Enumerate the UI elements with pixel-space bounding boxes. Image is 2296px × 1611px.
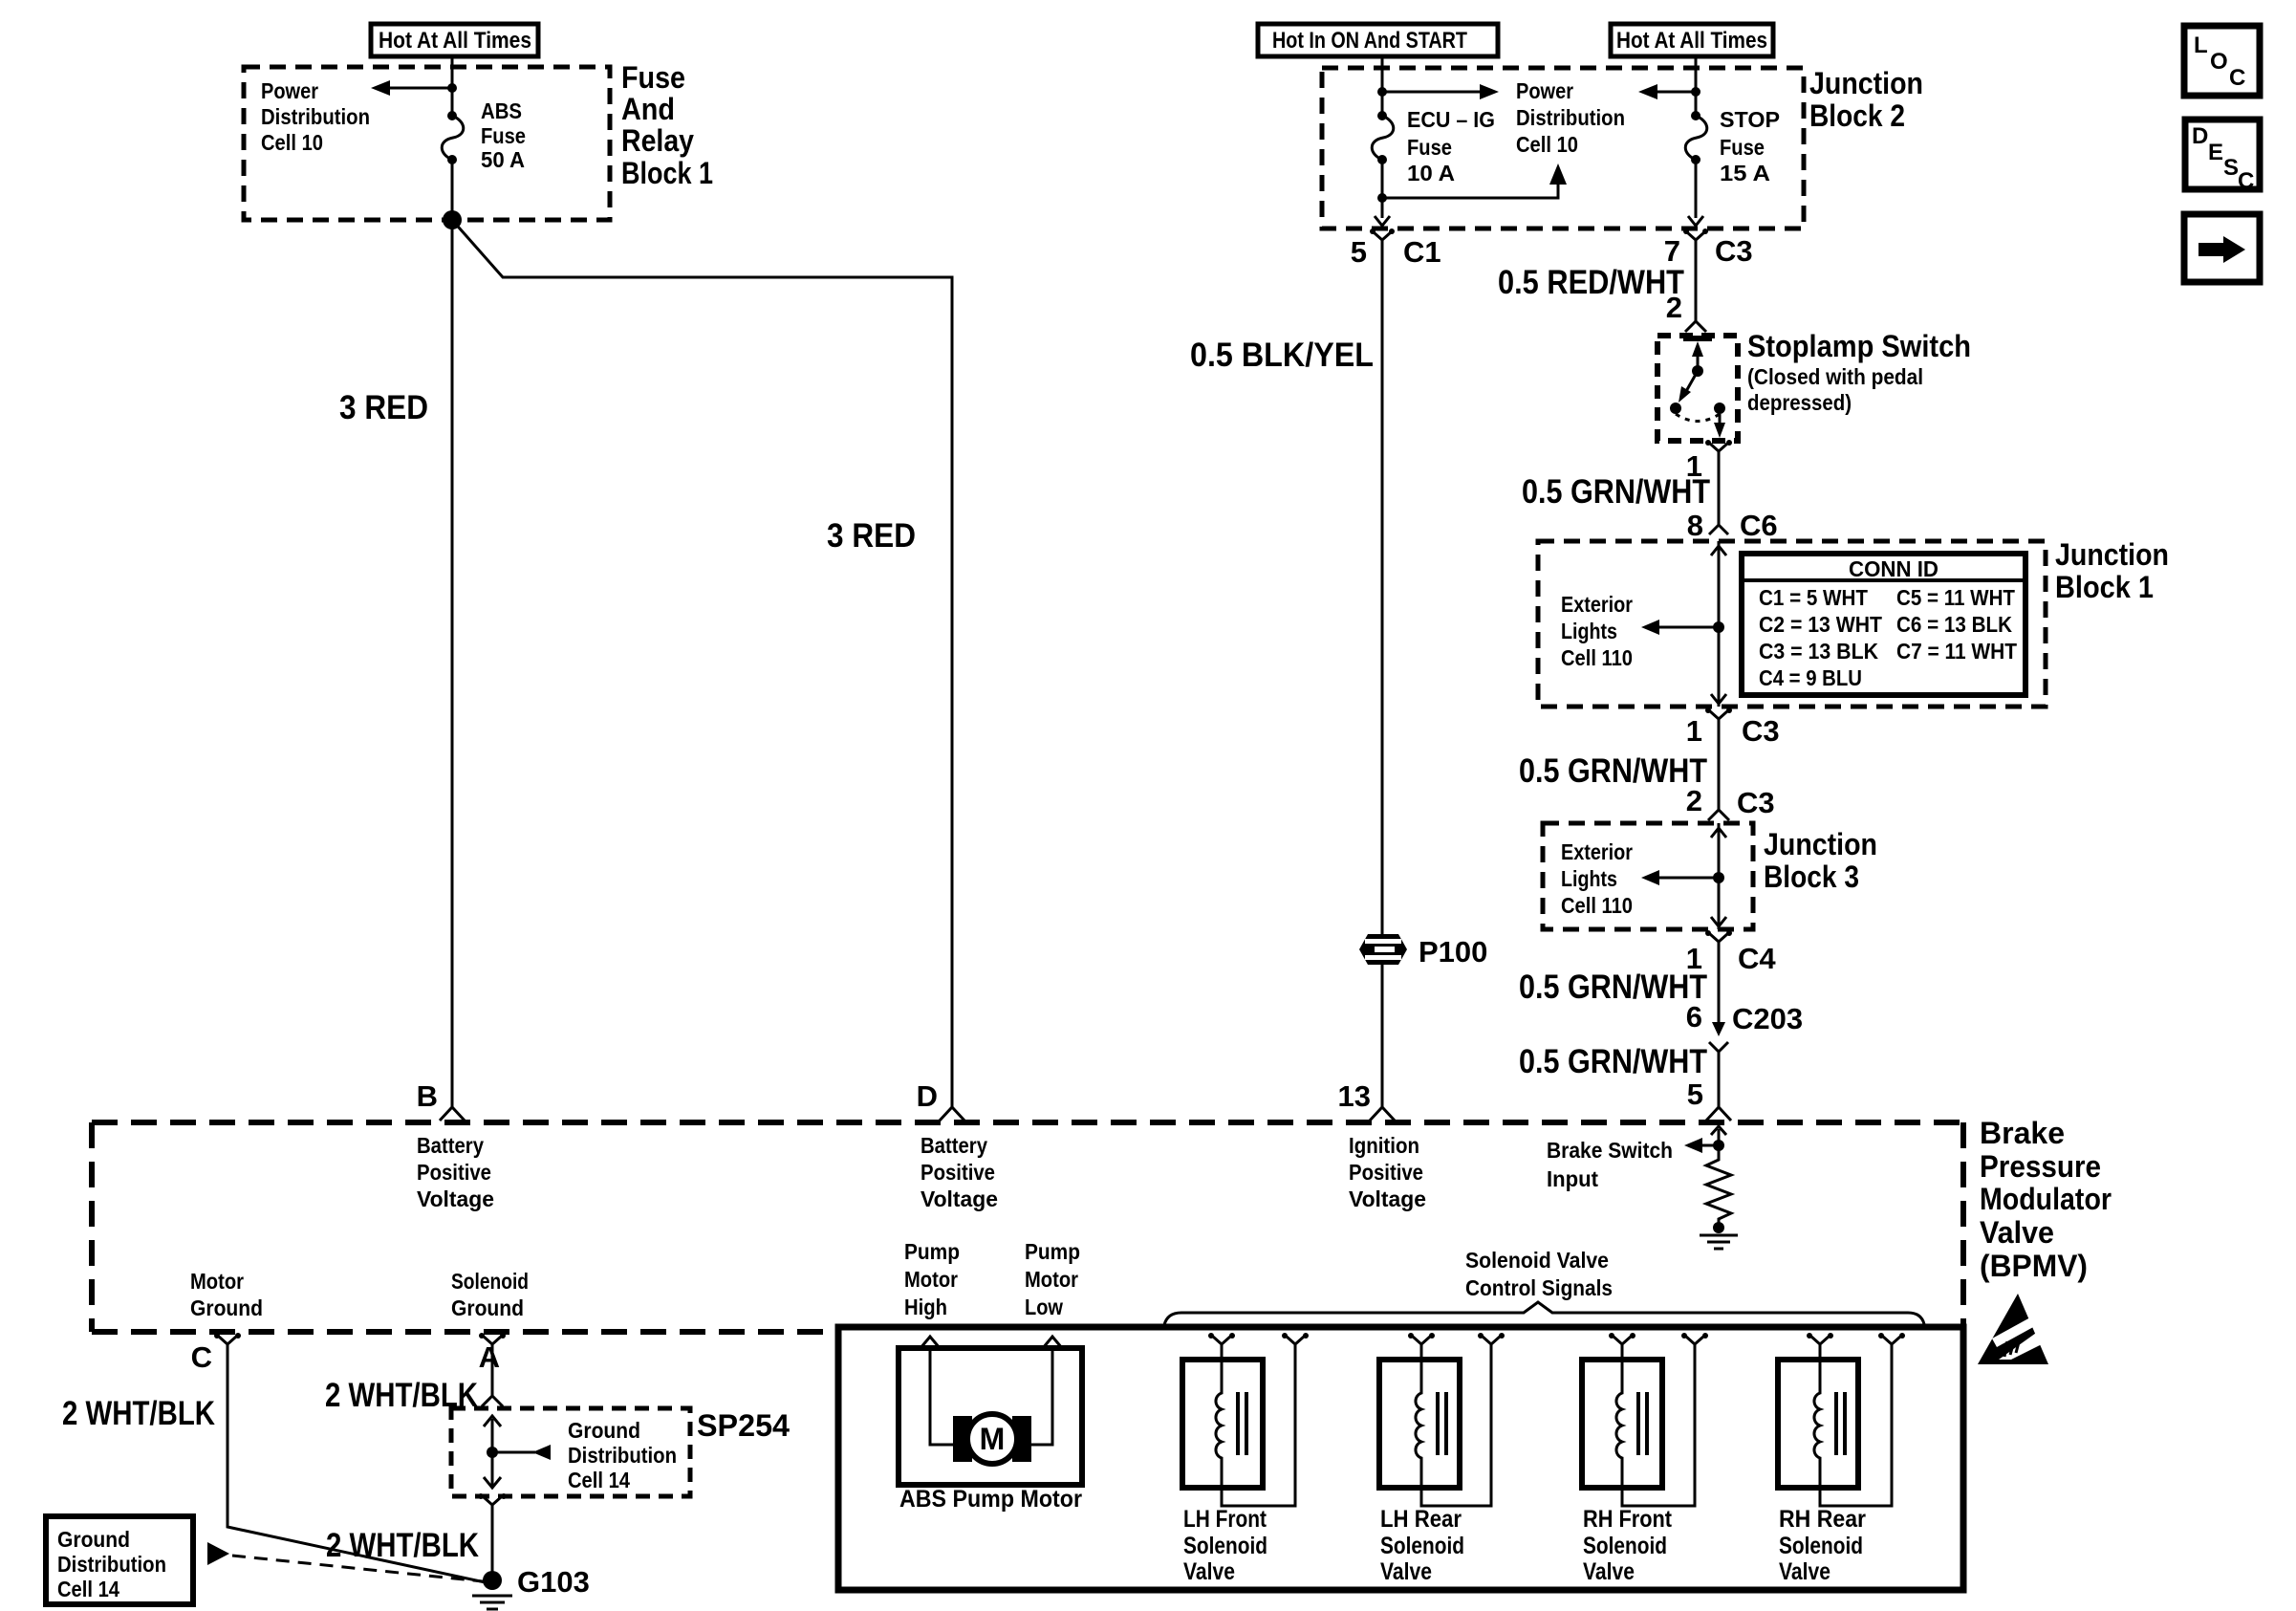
svg-text:Battery: Battery [921,1133,987,1158]
svg-text:LH Front: LH Front [1183,1506,1267,1533]
svg-text:Cell 10: Cell 10 [1516,132,1578,157]
svg-text:5: 5 [1687,1078,1703,1111]
svg-text:C: C [191,1340,212,1374]
svg-text:3 RED: 3 RED [339,389,428,426]
svg-text:(BPMV): (BPMV) [1980,1249,2088,1283]
svg-text:0.5 GRN/WHT: 0.5 GRN/WHT [1519,1043,1707,1080]
svg-text:ABS: ABS [481,98,522,123]
label Pump Motor Low [1025,1239,1080,1319]
svg-text:C6: C6 [1740,509,1778,542]
ground symbol internal [1700,1235,1738,1249]
solenoid valve RH Front: return wire [1622,1362,1695,1506]
label ABS Fuse 50 A [481,98,526,172]
svg-text:13: 13 [1338,1079,1371,1113]
wire 3 RED left branch to B [451,220,454,1107]
svg-text:Ground: Ground [451,1295,524,1320]
Junction Block 3 dashed box [1543,823,1753,929]
svg-text:Pump: Pump [1025,1239,1080,1264]
solenoid valve LH Front: coil and core [1216,1360,1246,1488]
connector fork into SP254 [482,1396,503,1406]
label Battery Positive Voltage (B) [417,1133,494,1211]
svg-text:Block 2: Block 2 [1809,98,1905,133]
wire 0.5 RED/WHT [1695,252,1698,321]
svg-text:Junction: Junction [1764,827,1877,861]
connector C on BPMV bottom [191,1333,241,1374]
Junction Block 1 dashed box [1538,541,2046,707]
svg-text:Distribution: Distribution [568,1443,677,1468]
wire from Hot At All Times into fuse block [451,56,454,88]
node dot above ground [1713,1222,1724,1233]
svg-text:Valve: Valve [1779,1558,1830,1585]
svg-text:Motor: Motor [190,1269,244,1294]
svg-text:Solenoid: Solenoid [1583,1533,1667,1559]
wire solenoid ground from A [491,1356,494,1396]
switch left contact dot [1670,403,1681,414]
svg-text:Fuse: Fuse [481,123,526,148]
Hot In ON And START label box [1258,24,1498,56]
svg-text:7: 7 [1664,234,1680,268]
pump motor internal wires [930,1348,954,1445]
svg-text:0.5 RED/WHT: 0.5 RED/WHT [1498,264,1684,301]
wire motor ground from C [227,1356,489,1583]
svg-text:2: 2 [1666,291,1682,324]
svg-text:2 WHT/BLK: 2 WHT/BLK [62,1395,215,1432]
svg-text:ECU – IG: ECU – IG [1407,107,1495,132]
svg-text:Stoplamp Switch: Stoplamp Switch [1747,329,1971,363]
DESC reference box [2185,120,2260,194]
label Solenoid Ground [451,1269,529,1320]
wire exit arrowhead at JB2 bottom C1 [1375,216,1390,226]
wire arrow to Power Distribution Cell 10 [382,87,452,90]
wire arrow left to Power Distribution [1650,91,1696,94]
fuse ECU-IG 10 A [1372,88,1394,218]
svg-text:Motor: Motor [1025,1267,1078,1292]
svg-text:D: D [2192,123,2208,149]
svg-text:Ground: Ground [568,1418,640,1443]
wire 0.5 GRN/WHT JB3 to C203 [1718,953,1721,1027]
switch output arrow down [1719,414,1722,426]
connector 6 C203 [1686,1000,1803,1057]
label Battery Positive Voltage (D) [921,1133,998,1211]
solenoid valve RH Front: coil and core [1616,1360,1647,1488]
connector 5 C1 below JB2 [1351,229,1441,269]
svg-text:Hot At All Times: Hot At All Times [379,28,531,54]
svg-text:Solenoid Valve: Solenoid Valve [1465,1248,1609,1273]
svg-text:depressed): depressed) [1747,390,1852,415]
solenoid valve LH Front: box [1182,1360,1263,1488]
wire arrow to Exterior Lights [1656,877,1719,880]
wire from Hot In ON And START [1381,56,1384,92]
svg-text:0.5 GRN/WHT: 0.5 GRN/WHT [1522,473,1710,511]
svg-text:E: E [2208,140,2223,165]
solenoid valve LH Front: return wire [1222,1362,1295,1506]
svg-text:C3: C3 [1715,234,1753,268]
svg-text:LH Rear: LH Rear [1380,1506,1462,1533]
svg-text:S: S [2223,155,2239,181]
resistor brake switch pull-down [1706,1145,1731,1225]
label Exterior Lights Cell 110 (JB3) [1561,839,1633,918]
svg-text:C2 = 13 WHT: C2 = 13 WHT [1759,612,1882,637]
svg-text:2 WHT/BLK: 2 WHT/BLK [326,1527,479,1564]
wire from Hot At All Times into JB2 [1695,56,1698,92]
svg-text:Lights: Lights [1561,866,1617,891]
svg-text:Valve: Valve [1183,1558,1235,1585]
node tap dot [1377,87,1387,97]
svg-text:Cell 14: Cell 14 [568,1468,630,1492]
svg-text:SP254: SP254 [697,1408,790,1443]
label Brake Pressure Modulator Valve BPMV [1980,1116,2112,1283]
svg-text:CONN ID: CONN ID [1849,556,1939,581]
svg-text:Valve: Valve [1380,1558,1432,1585]
svg-text:C: C [2229,65,2245,91]
svg-text:0.5 BLK/YEL: 0.5 BLK/YEL [1190,337,1374,374]
forward arrow reference box [2184,214,2260,282]
label STOP Fuse 15 A [1720,107,1780,185]
svg-text:D: D [917,1079,938,1113]
svg-text:Cell 14: Cell 14 [57,1577,119,1601]
wire arrow right to Power Distribution [1382,91,1487,94]
connector D into BPMV [940,1107,964,1121]
svg-text:C203: C203 [1732,1002,1803,1035]
LOC reference box [2184,26,2260,96]
svg-text:Fuse: Fuse [1407,135,1452,160]
svg-text:Control Signals: Control Signals [1465,1275,1613,1300]
connector 1 C3 below JB1 [1686,708,1780,748]
svg-text:M: M [980,1422,1006,1456]
svg-text:Exterior: Exterior [1561,839,1633,864]
svg-text:C1 = 5 WHT: C1 = 5 WHT [1759,585,1868,610]
switch right contact dot [1714,403,1725,414]
solenoid valve LH Rear: return wire [1421,1362,1491,1506]
svg-text:C: C [2238,168,2254,194]
label Junction Block 1 [2055,537,2169,604]
svg-text:Fuse: Fuse [621,60,685,95]
solenoid valve RH Front: box [1582,1360,1662,1488]
svg-text:Input: Input [1547,1166,1598,1191]
switch closed-position dashed arc [1676,414,1720,422]
ESD sensitivity symbol [1978,1294,2048,1364]
Hot At All Times label box (middle) [1611,24,1773,56]
svg-text:Relay: Relay [621,123,694,158]
fuse ABS 50 A [442,88,464,220]
svg-text:Block 3: Block 3 [1764,860,1859,894]
svg-text:RH Rear: RH Rear [1779,1506,1866,1533]
svg-text:Ignition: Ignition [1349,1133,1419,1158]
label RH Front Solenoid Valve [1583,1506,1673,1585]
svg-text:1: 1 [1686,714,1702,748]
Stoplamp Switch dashed box [1657,336,1738,441]
label 13 and connector into BPMV [1338,1079,1395,1121]
svg-text:Voltage: Voltage [921,1186,998,1211]
label LH Rear Solenoid Valve [1380,1506,1464,1585]
fuse STOP 15 A [1685,88,1707,218]
connector 2 C3 into JB3 [1686,784,1775,820]
label Fuse And Relay Block 1 [621,60,713,190]
connector 8 C6 [1687,509,1778,542]
label Ground Distribution Cell 14 (SP254) [568,1418,677,1492]
label Motor Ground [190,1269,263,1320]
label RH Rear Solenoid Valve [1779,1506,1866,1585]
svg-text:Solenoid: Solenoid [1779,1533,1863,1559]
svg-text:C4 = 9 BLU: C4 = 9 BLU [1759,665,1862,690]
solenoid valve LH Rear: connectors [1408,1333,1505,1362]
svg-text:5: 5 [1351,235,1367,269]
wire 3 RED right branch to D [452,220,952,1107]
svg-text:Low: Low [1025,1295,1063,1319]
svg-text:8: 8 [1687,509,1703,542]
label ECU-IG Fuse 10 A [1407,107,1495,185]
svg-text:2: 2 [1686,784,1702,817]
switch top terminal bar [1683,336,1712,341]
svg-text:High: High [904,1295,947,1319]
svg-text:Ground: Ground [57,1527,130,1552]
svg-text:Junction: Junction [2055,537,2169,572]
svg-text:C3 = 13 BLK: C3 = 13 BLK [1759,639,1878,664]
svg-text:Distribution: Distribution [261,104,370,129]
solenoid valve RH Rear: connectors [1807,1333,1905,1362]
connector 1 below switch [1686,440,1732,483]
BPMV solid component box [838,1327,1963,1590]
svg-text:C5 = 11 WHT: C5 = 11 WHT [1896,585,2015,610]
svg-text:Motor: Motor [904,1267,958,1292]
svg-text:Valve: Valve [1583,1558,1635,1585]
node: power distribution tap dot [447,83,457,93]
svg-text:Valve: Valve [1980,1215,2054,1250]
svg-text:Solenoid: Solenoid [1380,1533,1464,1559]
wire 0.5 GRN/WHT JB1 to JB3 [1718,730,1721,810]
svg-text:STOP: STOP [1720,107,1780,132]
label Power Distribution Cell 10 (JB2) [1516,78,1625,157]
svg-text:Block 1: Block 1 [621,156,713,190]
svg-text:RH Front: RH Front [1583,1506,1673,1533]
wire to Cell 10 up arrow [1382,176,1558,198]
svg-text:Ground: Ground [190,1295,263,1320]
svg-text:Cell 110: Cell 110 [1561,893,1633,918]
solenoid valve LH Rear: box [1379,1360,1460,1488]
svg-text:Power: Power [261,78,318,103]
splice P100 [1359,934,1487,969]
brace for solenoid control signals [1164,1302,1924,1325]
svg-text:6: 6 [1686,1000,1702,1034]
switch pivot dot [1692,365,1703,377]
switch terminal arrow up [1697,350,1700,369]
wire through JB1 [1718,541,1721,707]
svg-text:Battery: Battery [417,1133,484,1158]
svg-text:Solenoid: Solenoid [1183,1533,1267,1559]
svg-text:Pump: Pump [904,1239,960,1264]
Fuse And Relay Block 1 dashed box [244,67,610,220]
svg-text:0.5 GRN/WHT: 0.5 GRN/WHT [1519,969,1707,1006]
solenoid valve RH Rear: box [1778,1360,1858,1488]
solenoid valve RH Rear: return wire [1820,1362,1892,1506]
svg-text:L: L [2194,33,2208,58]
connector chevron into switch [1685,321,1706,332]
label LH Front Solenoid Valve [1183,1506,1267,1585]
SP254 internal wire with arrows [484,1416,551,1488]
wire exit arrowhead at JB2 bottom C3 [1688,216,1703,226]
svg-text:0.5 GRN/WHT: 0.5 GRN/WHT [1519,752,1707,790]
wire 0.5 BLK/YEL down to BPMV pin 13 [1381,252,1384,1107]
svg-text:P100: P100 [1419,935,1487,969]
label 5 and connector into BPMV [1687,1078,1731,1121]
ground G103 [472,1565,590,1609]
label Stoplamp Switch [1747,329,1971,415]
svg-text:Junction: Junction [1809,66,1923,100]
node: fuse output junction dot [443,210,462,229]
node tap dot [1691,87,1700,97]
connector A on BPMV bottom [479,1333,506,1374]
svg-text:O: O [2210,49,2228,75]
svg-text:C1: C1 [1403,235,1441,269]
svg-text:Voltage: Voltage [1349,1186,1426,1211]
wire 0.5 GRN/WHT switch to C6 [1718,463,1721,516]
svg-text:Power: Power [1516,78,1573,103]
svg-text:Brake Switch: Brake Switch [1547,1138,1673,1163]
svg-text:Cell 110: Cell 110 [1561,645,1633,670]
Hot At All Times label box (top left) [371,24,538,56]
svg-text:3 RED: 3 RED [827,517,916,555]
solenoid valve LH Front: connectors [1208,1333,1309,1362]
node tap dot in JB3 [1713,872,1724,883]
svg-text:Hot At All Times: Hot At All Times [1616,28,1767,54]
wire 0.5 GRN/WHT C203 to BPMV pin 5 [1718,1057,1721,1107]
svg-text:Lights: Lights [1561,619,1617,643]
svg-text:15 A: 15 A [1720,161,1770,185]
svg-text:Positive: Positive [417,1160,491,1185]
label Exterior Lights Cell 110 (JB1) [1561,592,1633,670]
CONN ID table [1742,554,2025,695]
svg-text:Hot In ON And START: Hot In ON And START [1272,28,1467,54]
splice SP254 dashed box [451,1408,690,1496]
label Junction Block 2 [1809,66,1923,133]
BPMV dashed outline [92,1122,1963,1332]
svg-text:ABS Pump Motor: ABS Pump Motor [899,1486,1082,1513]
svg-text:And: And [621,92,675,126]
node tap dot in JB1 [1713,621,1724,633]
solenoid valve LH Rear: coil and core [1416,1360,1446,1488]
dashed wire to G103 [232,1556,483,1581]
svg-text:C3: C3 [1742,714,1780,748]
svg-text:Modulator: Modulator [1980,1182,2112,1216]
label Ignition Positive Voltage [1349,1133,1426,1211]
svg-text:A: A [479,1340,500,1374]
svg-text:C3: C3 [1737,786,1775,819]
motor M circle [967,1414,1017,1464]
label Power Distribution Cell 10 [261,78,370,155]
svg-text:(Closed with pedal: (Closed with pedal [1747,364,1923,389]
switch moving contact arrow [1685,371,1698,393]
pump motor low connector [1043,1337,1062,1348]
svg-text:Solenoid: Solenoid [451,1269,529,1294]
connector below SP254 [478,1493,507,1576]
ABS pump motor box [899,1348,1082,1485]
connector 1 C4 below JB3 [1686,930,1777,975]
wire through JB3 [1718,823,1721,929]
svg-text:B: B [417,1079,438,1113]
label Solenoid Valve Control Signals [1465,1248,1613,1300]
label Junction Block 3 [1764,827,1877,894]
svg-text:Distribution: Distribution [1516,105,1625,130]
Ground Distribution Cell 14 box bottom left [46,1516,193,1604]
svg-text:10 A: 10 A [1407,161,1455,185]
arrow from Ground Distribution box [207,1542,229,1565]
svg-text:Fuse: Fuse [1720,135,1765,160]
solenoid valve RH Rear: coil and core [1814,1360,1845,1488]
motor brushes [953,1416,972,1462]
svg-text:Positive: Positive [1349,1160,1423,1185]
wire arrow to Exterior Lights [1656,626,1719,629]
svg-text:50 A: 50 A [481,147,525,172]
pump motor high connector [921,1337,940,1348]
solenoid valve RH Front: connectors [1609,1333,1708,1362]
svg-text:Positive: Positive [921,1160,995,1185]
svg-text:Voltage: Voltage [417,1186,494,1211]
brake switch input arrow [1547,1126,1726,1191]
svg-text:Block 1: Block 1 [2055,570,2154,604]
svg-text:Pressure: Pressure [1980,1149,2101,1184]
svg-text:Cell 10: Cell 10 [261,130,323,155]
label Pump Motor High [904,1239,960,1319]
svg-text:C6 = 13 BLK: C6 = 13 BLK [1896,612,2012,637]
node: ECU-IG fuse lower junction dot [1377,193,1387,203]
svg-text:Exterior: Exterior [1561,592,1633,617]
svg-text:Brake: Brake [1980,1116,2065,1150]
connector B into BPMV [440,1107,465,1121]
connector 7 C3 below JB2 [1664,229,1753,268]
svg-text:Distribution: Distribution [57,1552,166,1577]
svg-text:G103: G103 [517,1565,590,1599]
svg-text:C7 = 11 WHT: C7 = 11 WHT [1896,639,2017,664]
Junction Block 2 dashed box [1322,68,1804,229]
svg-text:C4: C4 [1738,942,1776,975]
